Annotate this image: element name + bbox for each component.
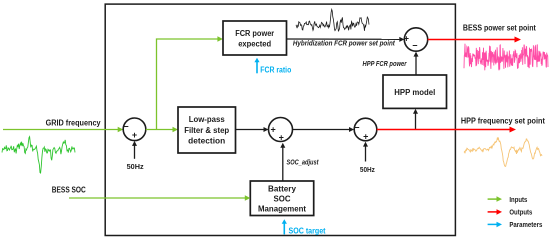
system boundary box: [105, 4, 455, 235]
svg-text:GRID frequency: GRID frequency: [46, 119, 101, 128]
svg-text:+: +: [132, 130, 137, 140]
svg-text:Outputs: Outputs: [509, 208, 532, 217]
svg-text:Low-pass: Low-pass: [189, 115, 226, 124]
svg-text:50Hz: 50Hz: [127, 162, 144, 171]
svg-text:−: −: [354, 122, 359, 132]
output wire: HPP frequency set point (red): [377, 129, 510, 131]
wire: U1 output (Hybridization FCR power set point) to summing junction S4: [287, 38, 400, 40]
svg-text:Filter & step: Filter & step: [184, 126, 229, 135]
svg-text:HPP frequency set point: HPP frequency set point: [461, 116, 545, 126]
svg-text:FCR ratio: FCR ratio: [260, 65, 291, 74]
summing junction S4 (Hybridization FCR minus HPP FCR): [404, 28, 427, 51]
wire: S1 output to Low-pass filter block (green): [146, 129, 173, 131]
block U1: FCR power expected: [223, 21, 287, 55]
svg-text:FCR power: FCR power: [235, 29, 274, 38]
svg-text:SOC: SOC: [274, 194, 291, 203]
wire: 50Hz reference up into S3: [365, 146, 367, 162]
svg-text:detection: detection: [188, 137, 225, 146]
svg-text:Parameters: Parameters: [509, 220, 542, 229]
block U3: Battery SOC Management: [250, 181, 313, 216]
wire: GRID frequency input into summing junction S1 (green): [3, 129, 118, 131]
wire: S2 output to summing junction S3: [293, 129, 350, 131]
output signal waveform: HPP frequency set point (orange trace): [464, 137, 542, 166]
block U4: HPP model: [383, 75, 447, 108]
legend arrow: Inputs (green): [488, 198, 497, 200]
parameter wire: FCR ratio into U1 (cyan): [256, 62, 258, 73]
svg-text:HPP model: HPP model: [394, 88, 435, 97]
svg-text:50Hz: 50Hz: [360, 165, 375, 174]
block U2: Low-pass Filter & step detection: [178, 107, 236, 153]
svg-text:HPP FCR power: HPP FCR power: [363, 61, 408, 68]
svg-text:−: −: [412, 40, 417, 50]
svg-text:+: +: [279, 133, 284, 143]
svg-text:expected: expected: [238, 40, 271, 49]
svg-text:Management: Management: [258, 204, 306, 213]
wire: U2 output to summing junction S2: [236, 129, 264, 131]
parameter wire: SOC target into U3 (cyan): [283, 224, 285, 235]
wire: U4 output HPP FCR power up into S4: [415, 56, 417, 75]
svg-text:BESS power set point: BESS power set point: [463, 24, 536, 33]
input signal waveform: GRID frequency (green noise trace): [2, 137, 75, 173]
wire: U3 output SOC_adjust up into S2: [282, 146, 284, 181]
summing junction S1 (GRID frequency minus 50Hz): [123, 118, 146, 141]
svg-text:SOC_adjust: SOC_adjust: [287, 159, 320, 166]
wire: tap from HPP frequency set point line up into U4: [415, 113, 417, 130]
svg-text:SOC target: SOC target: [289, 227, 326, 236]
output wire: BESS power set point (red): [428, 39, 515, 41]
wire: BESS SOC input into U3 (green): [69, 197, 245, 199]
legend arrow: Parameters (cyan): [488, 223, 497, 225]
wire: branch from S1 output up to FCR power expected block (green): [157, 39, 218, 130]
output signal waveform: BESS power set point (magenta noise trace): [464, 44, 548, 71]
signal waveform: Hybridization FCR power set point (black noise trace): [296, 9, 369, 31]
svg-text:+: +: [271, 125, 276, 135]
svg-text:Battery: Battery: [268, 185, 297, 194]
legend arrow: Outputs (red): [488, 211, 497, 213]
svg-text:BESS SOC: BESS SOC: [52, 185, 86, 194]
svg-text:+: +: [404, 34, 409, 44]
summing junction S3 (minus, plus 50Hz): [354, 118, 377, 141]
summing junction S2 (adds SOC_adjust): [269, 118, 293, 142]
svg-text:+: +: [363, 132, 368, 142]
svg-text:Inputs: Inputs: [509, 195, 527, 204]
wire: 50Hz reference up into S1: [134, 146, 136, 159]
svg-text:−: −: [123, 122, 128, 132]
svg-text:Hybridization FCR power set po: Hybridization FCR power set point: [293, 41, 396, 48]
